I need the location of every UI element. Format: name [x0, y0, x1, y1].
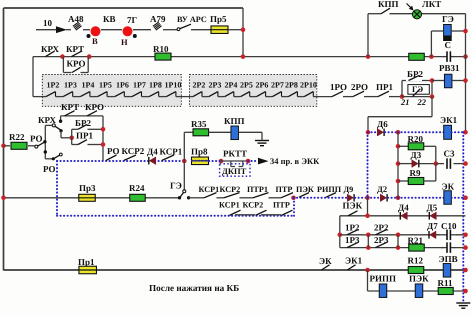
node [463, 130, 468, 135]
fuse Pr3 [79, 183, 96, 201]
fuse Pr1 [78, 257, 96, 274]
svg-text:1Р3: 1Р3 [64, 81, 77, 90]
svg-text:R35: R35 [191, 119, 207, 129]
node 10 feed arrow [36, 18, 67, 33]
dotted row [385, 131, 398, 133]
switch 1RO [330, 82, 353, 97]
resistor R24 [129, 183, 145, 201]
svg-text:ЭК: ЭК [442, 182, 455, 192]
labels RO KSR2 [107, 146, 145, 156]
contacts 1P series [33, 92, 178, 97]
svg-text:В: В [92, 36, 98, 46]
svg-text:R24: R24 [129, 183, 145, 193]
contact GE [170, 161, 190, 200]
svg-text:Д6: Д6 [377, 119, 388, 129]
switch 2RO [351, 82, 378, 97]
dotted bus right [462, 132, 464, 302]
dotted bypass path [57, 161, 294, 216]
svg-text:2Р3: 2Р3 [209, 81, 222, 90]
contact GE with box [408, 84, 429, 97]
node [365, 214, 370, 219]
svg-text:Д5: Д5 [427, 203, 438, 213]
labels 2P2-2P10 [193, 81, 317, 90]
contact PTR bypass [282, 210, 293, 215]
svg-text:КРО: КРО [85, 102, 104, 112]
svg-text:А48: А48 [68, 14, 84, 24]
switch KRH lower [38, 115, 72, 159]
svg-text:После нажатия на КБ: После нажатия на КБ [149, 283, 239, 293]
label KV [103, 14, 116, 24]
wire row Pr3 [1, 196, 179, 201]
dotted path [355, 197, 368, 199]
element GE (top right) [442, 14, 454, 41]
svg-text:Пр5: Пр5 [210, 14, 227, 24]
svg-text:КПП: КПП [378, 0, 399, 9]
svg-text:ВУ АРС: ВУ АРС [177, 15, 207, 24]
wire [101, 29, 122, 31]
switch KSR2 [124, 155, 136, 160]
node [463, 78, 468, 83]
svg-text:ПР1: ПР1 [76, 131, 93, 141]
resistor R22 [1, 132, 34, 149]
svg-text:Д4: Д4 [398, 203, 409, 213]
svg-text:КСР2: КСР2 [122, 146, 145, 156]
svg-text:2РО: 2РО [351, 82, 368, 92]
dotted path [388, 197, 398, 199]
svg-text:РВ31: РВ31 [439, 63, 460, 73]
svg-text:КРО: КРО [67, 59, 86, 69]
wire to lower block [368, 97, 432, 132]
node [434, 161, 439, 166]
svg-text:1РО: 1РО [330, 82, 347, 92]
node [396, 161, 401, 166]
lamp N [121, 15, 138, 47]
node [463, 196, 468, 201]
wire riser left [32, 57, 34, 97]
diode D7 [426, 221, 439, 239]
relay EK1 [440, 115, 458, 139]
svg-text:КРХ: КРХ [41, 44, 60, 54]
svg-text:КРТ: КРТ [66, 44, 84, 54]
node [366, 235, 371, 250]
pin 22 [417, 97, 427, 107]
svg-text:1Р3: 1Р3 [345, 235, 360, 245]
switch KSR1 row2 [189, 185, 224, 198]
wire vertical from top loop to rows [242, 8, 244, 57]
wire [313, 96, 332, 98]
svg-text:1Р6: 1Р6 [116, 81, 129, 90]
dotted path [452, 197, 466, 199]
node [101, 127, 106, 132]
dotted path [398, 197, 445, 199]
switch KSR2 row2 [220, 185, 254, 198]
node [396, 144, 401, 149]
svg-text:Д9: Д9 [344, 185, 354, 194]
relay EPV [439, 254, 458, 277]
switch 1P3 [344, 235, 361, 248]
svg-text:ПЭК: ПЭК [343, 201, 363, 211]
svg-text:ПТР1: ПТР1 [247, 185, 268, 194]
terminal [59, 120, 62, 123]
diode D3 [398, 150, 436, 167]
svg-text:1Р5: 1Р5 [99, 81, 112, 90]
switch PEK on dotted [296, 185, 314, 197]
caption [149, 283, 239, 293]
node [101, 142, 106, 147]
wire lower branch [368, 270, 466, 291]
svg-text:R11: R11 [438, 278, 454, 288]
svg-text:КПП: КПП [224, 116, 245, 126]
node [396, 235, 401, 250]
node [246, 159, 251, 164]
svg-text:ГЭ: ГЭ [170, 181, 182, 191]
svg-text:Пр1: Пр1 [78, 257, 95, 267]
capacitor C3 [436, 149, 466, 169]
svg-text:РО: РО [43, 164, 55, 174]
resistor R20 [398, 134, 436, 164]
contact KSR1 bypass [230, 210, 256, 215]
diode D2 [377, 184, 387, 202]
svg-text:КРТ: КРТ [61, 102, 79, 112]
svg-text:2Р5: 2Р5 [240, 81, 253, 90]
group box 2P contacts [190, 75, 317, 107]
svg-text:ГЭ: ГЭ [442, 14, 454, 24]
node [463, 245, 468, 250]
svg-text:РИПП: РИПП [317, 185, 342, 194]
svg-text:ПР1: ПР1 [376, 82, 393, 92]
contact PR1 lower [72, 131, 103, 145]
svg-text:R12: R12 [408, 256, 424, 266]
node [182, 159, 187, 164]
labels 1P2-1P10 [47, 81, 182, 90]
svg-text:ДКПТ: ДКПТ [222, 166, 247, 176]
dotted row [452, 131, 466, 133]
svg-text:2Р2: 2Р2 [193, 81, 206, 90]
node [429, 54, 434, 59]
switch EK bottom [319, 256, 332, 270]
svg-text:КСР1: КСР1 [160, 147, 183, 157]
switch RO 1 [30, 134, 47, 149]
switch KPP contact [378, 0, 399, 14]
pin 21 [400, 97, 410, 107]
svg-text:1Р7: 1Р7 [133, 81, 146, 90]
capacitor C10b [441, 242, 455, 254]
box DKPT [220, 164, 250, 176]
svg-text:34 пр. в ЭКК: 34 пр. в ЭКК [270, 156, 320, 166]
switch RIPP on dotted [317, 185, 342, 197]
fuse Pr8 [191, 147, 209, 165]
node [338, 233, 343, 238]
breaker A79 [150, 14, 177, 30]
capacitor C10 [437, 221, 457, 240]
breaker A48 [66, 14, 90, 30]
svg-text:1Р2: 1Р2 [47, 81, 60, 90]
svg-text:ЭПВ: ЭПВ [439, 254, 458, 264]
contact KSR2 bypass [256, 210, 282, 215]
capacitor C [443, 40, 455, 62]
relay RV31 [432, 63, 466, 88]
group box 1P contacts [42, 75, 181, 107]
node [396, 179, 401, 184]
switch PTR1 [247, 185, 281, 198]
svg-text:Д2: Д2 [377, 184, 387, 194]
diode D6 [377, 119, 388, 136]
node [430, 78, 435, 99]
switch EK1 bottom [345, 256, 363, 271]
diode D5 [425, 203, 439, 220]
svg-text:7Г: 7Г [127, 15, 138, 25]
node [463, 268, 468, 273]
node junction [241, 27, 246, 32]
wire [44, 150, 53, 159]
wire ladder left lower [339, 216, 341, 248]
labels KRT KRO [61, 102, 104, 112]
svg-text:1Р2: 1Р2 [345, 223, 360, 233]
dotted path RO-KSR2 row [57, 160, 184, 162]
svg-text:РИПП: РИПП [370, 274, 397, 284]
dotted path [368, 197, 380, 199]
node [60, 54, 65, 59]
wire GE row [431, 31, 465, 57]
svg-text:КСР2: КСР2 [243, 201, 264, 210]
diode D9 [344, 185, 355, 202]
svg-text:2Р10: 2Р10 [300, 81, 317, 90]
node [366, 233, 371, 238]
svg-text:2Р2: 2Р2 [374, 223, 389, 233]
arrow to EKK [248, 156, 320, 166]
svg-text:R9: R9 [410, 168, 421, 178]
svg-text:Д7: Д7 [427, 221, 438, 231]
wire ladder left [397, 132, 399, 198]
switch VU ARS [177, 15, 211, 31]
switch PTR [276, 185, 294, 198]
contact KRO box [63, 57, 88, 73]
wire row C [340, 247, 466, 249]
svg-text:2Р7: 2Р7 [271, 81, 284, 90]
svg-text:РКТТ: РКТТ [223, 149, 247, 159]
node [463, 29, 468, 34]
wire bottom long row [4, 269, 466, 271]
relay coil KPP [224, 116, 262, 140]
switch KRH [41, 44, 60, 57]
wire row B [340, 234, 466, 236]
resistor R11 [438, 278, 454, 295]
switch KSR1 [160, 147, 183, 161]
svg-text:ПЭК: ПЭК [409, 274, 429, 284]
node [69, 136, 74, 141]
switch PEK lower [343, 201, 363, 216]
svg-text:2Р4: 2Р4 [225, 81, 238, 90]
node [209, 159, 223, 164]
svg-text:ЭК1: ЭК1 [345, 256, 363, 266]
switch PR1 [376, 82, 402, 97]
resistor R35 [191, 119, 231, 136]
svg-text:ГЭ: ГЭ [412, 84, 423, 94]
svg-text:2Р3: 2Р3 [374, 235, 389, 245]
wire top-right loop [368, 14, 466, 132]
labels KSR1 KSR2 PTR bypass [219, 201, 290, 210]
switch 2P2 [373, 223, 390, 235]
svg-text:1Р10: 1Р10 [165, 81, 182, 90]
wire [133, 29, 151, 31]
node branch [400, 94, 405, 99]
node [463, 233, 468, 238]
node [396, 233, 401, 238]
svg-text:Д4: Д4 [147, 147, 158, 157]
switch 1P2 [344, 223, 361, 235]
svg-text:РО: РО [30, 134, 42, 144]
contact RKTT [221, 149, 248, 167]
node [396, 196, 401, 201]
node [366, 130, 371, 135]
svg-text:С3: С3 [444, 149, 455, 159]
svg-text:2Р6: 2Р6 [256, 81, 269, 90]
switch RO 2 [43, 153, 62, 174]
svg-text:КСР1: КСР1 [219, 201, 240, 210]
ground KPP [255, 132, 269, 145]
switch BR2 [406, 69, 423, 81]
svg-text:ПТР: ПТР [276, 185, 293, 194]
svg-text:22: 22 [417, 97, 427, 107]
node [463, 289, 468, 294]
node [396, 130, 401, 135]
lamp V [87, 26, 101, 46]
contacts 2P series [178, 92, 313, 97]
node [241, 54, 246, 59]
ground right [456, 303, 470, 308]
fuse Pr5 [210, 14, 243, 33]
wire row R10 [33, 56, 466, 58]
wire PEK row [340, 198, 466, 216]
dotted row [398, 131, 444, 133]
svg-text:Д3: Д3 [411, 150, 422, 160]
svg-text:10: 10 [43, 18, 53, 28]
svg-text:ЭК: ЭК [319, 256, 332, 266]
switch KRT [66, 44, 84, 57]
svg-text:КСР2: КСР2 [220, 185, 241, 194]
svg-text:1Р8: 1Р8 [149, 81, 162, 90]
switch KRO lower [87, 111, 97, 116]
svg-text:КВ: КВ [103, 14, 116, 24]
dotted vertical mid [367, 132, 369, 198]
svg-text:Пр8: Пр8 [191, 147, 208, 157]
resistor R9 [398, 164, 436, 185]
node [366, 54, 371, 59]
node [365, 196, 370, 201]
wire KRT-KRO row [61, 116, 103, 161]
diode D4 lower [396, 203, 410, 220]
svg-text:ЭК1: ЭК1 [440, 115, 458, 125]
resistor R10 [153, 44, 171, 60]
node [87, 54, 92, 59]
switch 2P3 [373, 235, 390, 248]
lamp LKT [407, 0, 442, 19]
svg-text:21: 21 [400, 97, 410, 107]
svg-text:Пр3: Пр3 [79, 183, 96, 193]
svg-text:1Р4: 1Р4 [82, 81, 95, 90]
svg-text:R10: R10 [153, 44, 169, 54]
contact BR2 lower [72, 118, 103, 145]
svg-text:ПТР: ПТР [273, 201, 290, 210]
svg-text:РО: РО [107, 146, 119, 156]
resistor unlabeled [409, 53, 425, 60]
node [463, 161, 468, 166]
resistor R12 [408, 256, 424, 274]
svg-text:ПЭК: ПЭК [296, 185, 314, 194]
dotted row EK1 [368, 131, 377, 133]
svg-text:ЛКТ: ЛКТ [422, 0, 441, 9]
switch KRT lower [65, 111, 75, 116]
node [291, 196, 296, 201]
dotted path row2 [294, 197, 348, 199]
diode D4 [147, 147, 158, 165]
svg-text:2Р8: 2Р8 [285, 81, 298, 90]
relay RIPP [370, 274, 397, 298]
switch RO on dotted [106, 155, 117, 160]
node [463, 54, 468, 59]
svg-text:R22: R22 [9, 132, 25, 142]
wire branch [402, 81, 432, 97]
relay EK [442, 182, 455, 205]
node [365, 268, 370, 273]
svg-text:С: С [445, 40, 452, 50]
svg-text:С10: С10 [441, 221, 457, 231]
wire top-left feed loop [4, 8, 244, 271]
resistor R21 [408, 236, 425, 252]
svg-text:Н: Н [121, 37, 128, 47]
wire riser [184, 132, 193, 161]
relay PEK coil [409, 274, 429, 298]
